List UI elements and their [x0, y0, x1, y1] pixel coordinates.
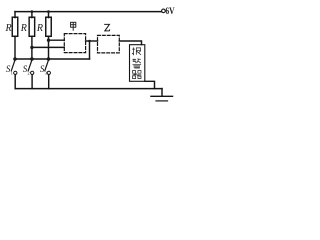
svg-text:R: R [20, 23, 27, 34]
wire S2 to bottom [31, 75, 33, 89]
alarm text char qi [132, 71, 141, 79]
resistor R2 stub [31, 12, 33, 18]
terminal 6V circle [162, 9, 166, 13]
wire alarm to bottom [145, 81, 155, 88]
node dot R3 branch [47, 39, 50, 42]
wire B to alarm [119, 41, 141, 45]
node dot S1 top [13, 57, 17, 61]
wire S1 to bottom [14, 75, 16, 89]
resistor R3 [46, 17, 52, 36]
switch S1 blade [11, 60, 15, 71]
node dot R3 top [47, 10, 50, 13]
wire riser to A-B node [89, 41, 91, 59]
box B dashed [98, 35, 120, 53]
wire R1 bottom [14, 36, 16, 59]
svg-text:R: R [36, 23, 43, 34]
wire R2 branch to box A [32, 46, 64, 48]
resistor R1 stub [14, 12, 16, 18]
resistor R3 stub [48, 12, 50, 18]
label yi (Chinese char) above box B [104, 24, 109, 31]
node dot S3 top [47, 57, 51, 61]
resistor R1 [12, 17, 18, 36]
node dot S2 top [30, 57, 34, 61]
wire bottom bus [15, 88, 162, 90]
svg-text:R: R [4, 23, 11, 34]
wire bottom bus of switches [15, 58, 90, 60]
label jia (Chinese char) above box A [71, 22, 76, 31]
switch S3 contact [47, 71, 50, 74]
alarm text char bao [132, 47, 141, 55]
svg-text:6V: 6V [165, 6, 175, 16]
switch S2 contact [31, 71, 34, 74]
wire R2 bottom [31, 36, 33, 59]
node dot R2 top [31, 10, 34, 13]
switch S1 contact [14, 71, 17, 74]
ground stub [161, 89, 163, 96]
wire S3 to bottom [48, 75, 50, 89]
switch S3 blade [45, 60, 49, 71]
node dot A-B riser [88, 40, 91, 43]
switch S2 blade [28, 60, 32, 71]
node dot R2 branch [30, 46, 33, 49]
alarm text char jing [133, 59, 142, 69]
alarm box [130, 45, 145, 82]
wire R3 branch to box A [49, 39, 65, 41]
wire top bus [15, 11, 162, 13]
wire A to B [86, 40, 98, 42]
ground bar 1 [151, 95, 173, 97]
box A dashed [64, 34, 85, 53]
resistor R2 [29, 17, 35, 36]
wire R3 bottom [48, 36, 50, 59]
ground bar 2 [156, 100, 168, 102]
